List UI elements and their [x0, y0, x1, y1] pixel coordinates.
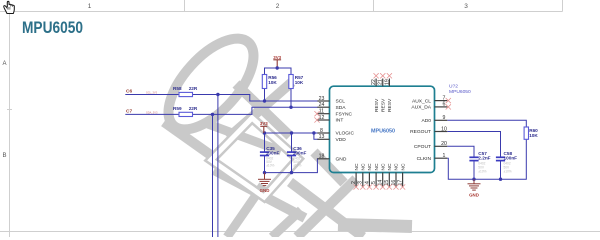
svg-text:3: 3 [464, 3, 468, 10]
svg-text:GND: GND [260, 188, 270, 193]
svg-text:NC: NC [387, 163, 393, 171]
svg-text:3: 3 [358, 181, 364, 184]
svg-text:1: 1 [88, 3, 92, 10]
svg-text:100nF: 100nF [504, 156, 518, 161]
svg-text:AUX_DA: AUX_DA [411, 105, 431, 111]
svg-text:AD0: AD0 [421, 118, 431, 124]
svg-text:6: 6 [443, 102, 446, 108]
svg-text:2: 2 [351, 181, 357, 184]
svg-text:INT: INT [336, 118, 344, 124]
svg-text:R58: R58 [173, 86, 182, 91]
svg-text:CLKIN: CLKIN [417, 156, 432, 162]
svg-text:MPU6050: MPU6050 [449, 89, 471, 95]
svg-text:10K: 10K [529, 133, 538, 138]
svg-text:GND: GND [469, 192, 479, 197]
svg-text:4: 4 [364, 181, 370, 184]
svg-text:NC: NC [380, 163, 386, 171]
svg-text:7: 7 [443, 95, 446, 101]
svg-text:3V3: 3V3 [260, 121, 268, 126]
svg-text:A: A [2, 61, 6, 67]
svg-text:C7: C7 [126, 108, 132, 114]
svg-text:9: 9 [443, 115, 446, 121]
svg-text:SCL_3V3: SCL_3V3 [146, 91, 158, 95]
svg-text:NC: NC [394, 163, 400, 171]
svg-text:18: 18 [319, 154, 325, 160]
svg-text:SDA: SDA [336, 105, 347, 111]
svg-text:±10%: ±10% [478, 170, 486, 174]
svg-text:SDA_3V3: SDA_3V3 [146, 111, 158, 115]
svg-text:VLOGIC: VLOGIC [336, 131, 355, 137]
svg-text:5: 5 [371, 181, 377, 184]
svg-text:NC: NC [361, 163, 367, 171]
svg-text:GND: GND [336, 157, 347, 163]
svg-text:R59: R59 [173, 106, 182, 111]
svg-text:SCL: SCL [336, 99, 346, 105]
svg-text:FSYNC: FSYNC [336, 111, 353, 117]
svg-text:±10%: ±10% [504, 170, 512, 174]
svg-text:1: 1 [443, 153, 446, 159]
svg-text:13: 13 [319, 134, 325, 140]
svg-text:RESV: RESV [380, 98, 386, 112]
svg-text:REGOUT: REGOUT [410, 129, 431, 135]
svg-text:AUX_CL: AUX_CL [412, 98, 431, 104]
svg-text:±10%: ±10% [266, 164, 274, 168]
svg-text:2.2nF: 2.2nF [478, 156, 490, 161]
svg-text:B: B [2, 153, 6, 159]
svg-text:10: 10 [441, 126, 447, 132]
svg-text:NC: NC [367, 163, 373, 171]
svg-text:8: 8 [320, 128, 323, 134]
svg-text:MPU6050: MPU6050 [371, 128, 395, 134]
svg-text:10K: 10K [295, 80, 304, 85]
svg-text:NC: NC [374, 163, 380, 171]
svg-text:20: 20 [441, 141, 447, 147]
svg-text:10K: 10K [268, 80, 277, 85]
svg-text:CPOUT: CPOUT [414, 144, 431, 150]
svg-text:100nF: 100nF [266, 151, 280, 156]
svg-text:22R: 22R [189, 86, 198, 91]
svg-text:NC: NC [354, 163, 360, 171]
svg-text:19: 19 [384, 79, 390, 85]
svg-text:±10%: ±10% [293, 164, 301, 168]
svg-text:23: 23 [319, 96, 325, 102]
svg-text:22R: 22R [189, 106, 198, 111]
svg-text:NC: NC [400, 163, 406, 171]
svg-text:RESV: RESV [374, 98, 380, 112]
svg-text:21: 21 [378, 79, 384, 85]
svg-text:C6: C6 [126, 89, 132, 95]
svg-text:RESV: RESV [387, 98, 393, 112]
svg-text:U?2: U?2 [449, 83, 458, 89]
svg-text:100nF: 100nF [293, 151, 307, 156]
svg-text:MPU6050: MPU6050 [22, 19, 83, 37]
svg-text:2: 2 [276, 3, 280, 10]
svg-text:VDD: VDD [336, 137, 347, 143]
svg-text:22: 22 [371, 79, 377, 85]
svg-text:3V3: 3V3 [273, 55, 281, 60]
svg-text:24: 24 [319, 102, 325, 108]
